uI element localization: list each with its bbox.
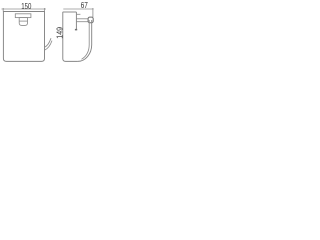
side view front edge + bottom (with 149 dim line merged) bbox=[63, 12, 78, 62]
front view hinge knuckle bbox=[19, 18, 27, 26]
svg-text:67: 67 bbox=[81, 0, 88, 10]
knuckle mid line bbox=[19, 20, 27, 22]
dimension line 67 (side view depth) bbox=[63, 8, 93, 12]
front view top bracket plate bbox=[15, 14, 31, 18]
extension line from 67 dim to hinge bbox=[92, 12, 94, 17]
post foot bbox=[75, 29, 77, 31]
front view outer plate outline bbox=[3, 12, 44, 62]
small step line near post top bbox=[76, 13, 80, 15]
hinge barrel bbox=[88, 17, 93, 23]
flap inner surface bbox=[82, 20, 90, 59]
side view mounting post bbox=[75, 12, 77, 30]
flap edge curves at right of front view bbox=[44, 38, 51, 47]
spindle arm upper line bbox=[76, 18, 88, 20]
svg-text:150: 150 bbox=[21, 1, 31, 11]
spindle arm lower line bbox=[76, 21, 88, 23]
side view top edge bbox=[63, 11, 77, 13]
flap outer surface bbox=[78, 20, 92, 61]
dimension line 150 (front view width) bbox=[2, 8, 47, 11]
background bbox=[0, 0, 100, 68]
